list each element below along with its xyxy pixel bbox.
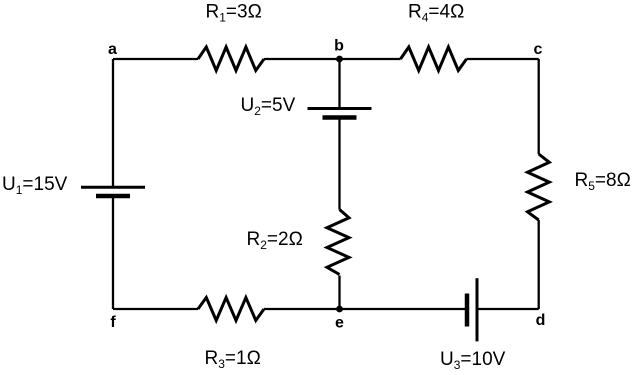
resistor R2: [327, 210, 349, 275]
wire U1 to f (left side): [112, 196, 114, 309]
resistor R5: [528, 154, 550, 220]
wire a to U1 (left side): [112, 59, 114, 187]
svg-text:d: d: [536, 312, 546, 329]
wire c to R5 (right side): [538, 59, 540, 154]
battery U2 long plate: [308, 107, 372, 110]
svg-text:R5=8Ω: R5=8Ω: [575, 170, 631, 193]
svg-text:e: e: [335, 315, 344, 332]
battery U3 long plate: [476, 278, 479, 341]
battery U3 short plate: [465, 294, 470, 327]
wire R2 to e (middle branch): [338, 276, 340, 310]
svg-text:R2=2Ω: R2=2Ω: [247, 229, 303, 252]
svg-text:R3=1Ω: R3=1Ω: [205, 348, 261, 371]
wire R3 to U3 (bottom, through node e): [264, 308, 467, 310]
svg-text:U2=5V: U2=5V: [241, 95, 296, 118]
resistor R3: [198, 298, 264, 321]
wire U3 to d (bottom-right): [477, 308, 539, 310]
svg-text:a: a: [108, 41, 117, 58]
node b dot: [336, 56, 343, 63]
battery U1 short plate: [96, 194, 130, 199]
svg-text:R1=3Ω: R1=3Ω: [206, 2, 262, 25]
svg-text:c: c: [534, 41, 543, 58]
svg-text:b: b: [334, 38, 344, 55]
battery U2 short plate: [323, 115, 357, 120]
svg-text:U3=10V: U3=10V: [440, 349, 506, 372]
wire a to R1 (top-left): [113, 58, 198, 60]
resistor R1: [198, 47, 264, 71]
wire R1 to R4 (through node b): [264, 58, 401, 60]
wire R4 to c (top-right): [467, 58, 539, 60]
wire R5 to d (right side): [538, 220, 540, 309]
wire b to U2 (middle branch): [338, 59, 340, 109]
battery U1 long plate: [81, 186, 145, 189]
node e dot: [336, 306, 343, 313]
svg-text:U1=15V: U1=15V: [2, 174, 68, 197]
svg-text:R4=4Ω: R4=4Ω: [408, 2, 464, 25]
wire U2 to R2 (middle branch): [338, 118, 340, 210]
wire f to R3 (bottom-left): [113, 308, 198, 310]
svg-text:f: f: [110, 314, 116, 331]
resistor R4: [401, 47, 467, 71]
